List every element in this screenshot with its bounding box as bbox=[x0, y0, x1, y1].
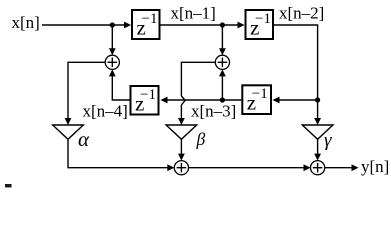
caption fragment bottom-left bbox=[5, 184, 12, 187]
wire x[n-3] from delay U3 to delay U4 bbox=[166, 99, 241, 101]
wire x[n] to delay U1 bbox=[42, 24, 125, 26]
wire node C to delay U3 input bbox=[278, 99, 318, 101]
svg-text:α: α bbox=[78, 127, 90, 151]
wire delay U2 output to x[n-2] vertical bbox=[274, 25, 318, 121]
arrow into adder S2 bottom bbox=[219, 69, 226, 76]
svg-text:x[n–1]: x[n–1] bbox=[171, 4, 216, 23]
delay U4 (z^-1) bbox=[131, 86, 159, 115]
svg-text:x[n–4]: x[n–4] bbox=[83, 102, 128, 121]
svg-text:x[n–3]: x[n–3] bbox=[191, 102, 236, 121]
arrow into gain G1 top bbox=[65, 118, 72, 125]
wire x[n-4] from delay U4 up to adder S1 bottom bbox=[112, 74, 129, 100]
wire adder S3 output to adder S4 bbox=[189, 167, 305, 169]
gain G1 triangle bbox=[53, 125, 84, 139]
node B junction dot (x[n-1] tap) bbox=[220, 22, 225, 27]
arrow into adder S4 left bbox=[304, 164, 311, 171]
arrow into delay U4 right side bbox=[161, 97, 168, 104]
gain G2 triangle bbox=[166, 125, 197, 139]
gain G3 triangle bbox=[302, 125, 333, 139]
svg-text:x[n]: x[n] bbox=[12, 13, 40, 32]
arrow into gain G2 top bbox=[178, 118, 185, 125]
node A junction dot (x[n] tap) bbox=[110, 22, 115, 27]
wire gain G2 output to adder S3 top bbox=[180, 139, 182, 155]
arrow into adder S2 top bbox=[219, 48, 226, 55]
delay U1 (z^-1) bbox=[132, 10, 160, 39]
svg-text:−1: −1 bbox=[140, 87, 156, 103]
wire node B down to adder S2 bbox=[221, 25, 223, 50]
arrow into delay U1 bbox=[124, 22, 131, 29]
wire gain G3 output to adder S4 top bbox=[317, 139, 319, 155]
wire adder S4 output to y[n] bbox=[325, 167, 353, 169]
arrow output y[n] bbox=[352, 164, 359, 171]
wire node A down to adder S1 bbox=[111, 25, 113, 50]
wire adder S1 output to gain G1 bbox=[68, 62, 105, 121]
arrow into adder S1 bottom bbox=[109, 69, 116, 76]
arrow into delay U2 bbox=[238, 22, 245, 29]
arrow into gain G3 top bbox=[314, 118, 321, 125]
svg-text:−1: −1 bbox=[255, 11, 271, 27]
svg-text:−1: −1 bbox=[252, 86, 268, 102]
adder S3 bbox=[174, 161, 188, 175]
wire adder S2 output to gain G2 with hop over x[n-3] bbox=[181, 62, 215, 121]
node C junction dot (x[n-2] tap) bbox=[315, 97, 320, 102]
arrow into adder S3 left bbox=[167, 164, 174, 171]
adder S1 bbox=[105, 55, 119, 69]
wire node D up to adder S2 bottom bbox=[221, 74, 223, 100]
svg-text:β: β bbox=[196, 129, 206, 149]
wire delay U1 to delay U2 bbox=[160, 24, 238, 26]
delay U3 (z^-1) bbox=[242, 85, 271, 114]
arrow into adder S1 top bbox=[109, 48, 116, 55]
delay U2 (z^-1) bbox=[246, 10, 274, 39]
svg-text:−1: −1 bbox=[142, 11, 158, 27]
node D junction dot (x[n-3] tap) bbox=[220, 97, 225, 102]
svg-text:γ: γ bbox=[324, 130, 332, 151]
arrow into adder S4 top bbox=[314, 154, 321, 161]
arrow into adder S3 top bbox=[178, 154, 185, 161]
svg-text:y[n]: y[n] bbox=[361, 157, 389, 176]
wire gain G1 output to adder S3 bbox=[68, 139, 169, 167]
adder S2 bbox=[215, 55, 229, 69]
svg-text:x[n–2]: x[n–2] bbox=[279, 4, 324, 23]
arrow into delay U3 right side bbox=[273, 97, 280, 104]
adder S4 bbox=[311, 161, 325, 175]
